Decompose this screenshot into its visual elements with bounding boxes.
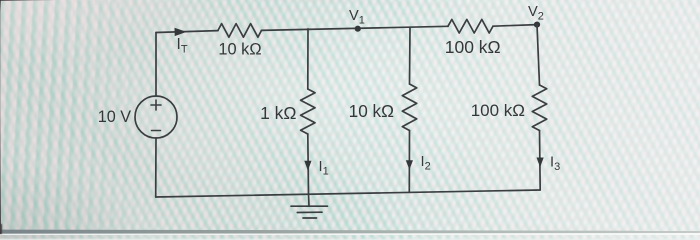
label I1 <box>319 159 329 178</box>
resistor R5 100 kOhm (vertical zigzag) <box>532 85 546 131</box>
wire: top right segment (R2 to V2) <box>493 25 537 27</box>
wire: branch1 vertical bottom (R3 to bottom wire) <box>307 134 310 194</box>
resistor R1 10 kOhm (horizontal zigzag) <box>218 24 262 38</box>
label I2 <box>421 154 431 173</box>
svg-text:100 kΩ: 100 kΩ <box>471 101 525 120</box>
wire: top-left horizontal segment <box>156 31 218 33</box>
wire: branch2 vertical bottom (R4 to bottom wire) <box>408 131 410 193</box>
svg-text:I1: I1 <box>319 159 329 178</box>
wire: top middle horizontal (R1 to R2 through V1) <box>262 26 449 30</box>
svg-text:1 kΩ: 1 kΩ <box>260 103 296 123</box>
svg-text:I2: I2 <box>421 154 431 173</box>
label V1 <box>349 8 365 27</box>
label I3 <box>550 154 560 173</box>
ground stub wire <box>308 194 311 206</box>
svg-text:10 kΩ: 10 kΩ <box>218 40 261 58</box>
label V2 <box>528 4 544 23</box>
svg-text:V1: V1 <box>349 8 365 27</box>
resistor R3 1 kOhm (vertical zigzag) <box>301 89 315 134</box>
svg-text:100 kΩ: 100 kΩ <box>445 37 501 57</box>
wire: branch3 vertical bottom (R5 to bottom wire) <box>539 131 542 191</box>
node V2 (dot) <box>534 22 540 28</box>
current arrow I2 <box>406 160 413 169</box>
wire: branch2 vertical top (junction to R4) <box>409 28 412 85</box>
ground symbol <box>291 206 328 218</box>
bottom wire <box>156 190 541 197</box>
resistor R4 10 kOhm (vertical zigzag) <box>402 84 416 131</box>
wire: branch3 vertical top (V2 to R5) <box>537 25 540 85</box>
svg-text:IT: IT <box>177 36 188 56</box>
wire: left vertical (source branch) <box>155 33 157 198</box>
svg-text:I3: I3 <box>550 154 560 173</box>
label 1 kOhm (R3) <box>260 103 296 123</box>
label IT <box>177 36 188 56</box>
current arrow I3 <box>537 158 544 168</box>
wire: branch1 vertical top (junction to R3) <box>307 29 309 89</box>
current arrow IT <box>175 28 187 36</box>
label 10 kOhm (R4) <box>349 101 394 121</box>
label 10 V <box>98 108 132 126</box>
resistor R2 100 kOhm (horizontal zigzag) <box>448 19 493 33</box>
node V1 (dot) <box>355 26 361 32</box>
label 10 kOhm (R1) <box>218 40 261 58</box>
current arrow I1 <box>304 161 311 171</box>
svg-text:10 V: 10 V <box>98 108 132 126</box>
label 100 kOhm (R5) <box>471 101 525 120</box>
svg-text:10 kΩ: 10 kΩ <box>349 101 394 121</box>
svg-text:V2: V2 <box>528 4 544 23</box>
label 100 kOhm (R2) <box>445 37 501 57</box>
voltage source 10 V <box>135 96 177 138</box>
